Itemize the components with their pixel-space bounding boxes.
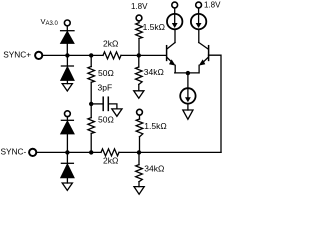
node D junction (cap tap) bbox=[89, 102, 93, 106]
ground G3 bbox=[62, 183, 72, 190]
svg-text:SYNC-: SYNC- bbox=[1, 147, 27, 157]
diode D4 (gnd to SYNC-) bbox=[61, 155, 74, 184]
svg-text:2kΩ: 2kΩ bbox=[103, 155, 118, 165]
transistor Q2 bbox=[199, 43, 209, 73]
svg-text:VA3.0: VA3.0 bbox=[41, 17, 59, 27]
wire I3 to ground bbox=[187, 104, 189, 110]
terminal 1.8V right current source bbox=[196, 2, 202, 8]
resistor R2 50 (upper) bbox=[88, 57, 95, 104]
node G junction bbox=[137, 150, 141, 154]
ground G6 bbox=[183, 110, 193, 119]
ground G1 bbox=[62, 84, 72, 91]
wire I1 to Q1 collector bbox=[174, 29, 176, 42]
wire SYNC+ rail bbox=[43, 54, 103, 56]
current source I1 bbox=[167, 14, 182, 29]
svg-text:34kΩ: 34kΩ bbox=[144, 67, 164, 77]
node F junction bbox=[65, 150, 69, 154]
wire SYNC- rail bbox=[37, 151, 101, 153]
svg-text:1.8V: 1.8V bbox=[131, 2, 148, 11]
svg-text:50Ω: 50Ω bbox=[98, 114, 114, 124]
resistor R1 2k (top) bbox=[103, 52, 121, 59]
wire emitter to I3 bbox=[187, 73, 189, 88]
current source I2 bbox=[191, 14, 206, 29]
capacitor C1 3pF bbox=[91, 97, 117, 110]
diode D1 (SYNC+ to VA3.0) bbox=[61, 31, 74, 53]
resistor R4 2k (bottom) bbox=[101, 149, 119, 156]
terminal 1.8V left current source bbox=[172, 2, 178, 8]
node E junction bbox=[89, 150, 93, 154]
wire emitter rail bbox=[175, 72, 199, 74]
svg-text:3pF: 3pF bbox=[98, 83, 113, 93]
node B junction bbox=[89, 53, 93, 57]
diode D3 (SYNC- to supply) bbox=[61, 117, 74, 150]
svg-text:1.5kΩ: 1.5kΩ bbox=[143, 22, 165, 32]
svg-text:2kΩ: 2kΩ bbox=[103, 38, 118, 48]
terminal VA3.0 bbox=[64, 20, 70, 26]
resistor R7 1.5k (bottom) bbox=[136, 116, 143, 153]
resistor R6 34k (top) bbox=[136, 58, 143, 91]
svg-text:1.5kΩ: 1.5kΩ bbox=[144, 121, 166, 131]
terminal SYNC- bbox=[29, 149, 36, 156]
node emitter junction bbox=[186, 71, 190, 75]
svg-text:1.8V: 1.8V bbox=[204, 1, 221, 10]
resistor R5 1.5k (top) bbox=[136, 21, 143, 53]
diode D2 (gnd to SYNC+) bbox=[61, 57, 74, 84]
terminal SYNC+ bbox=[35, 52, 42, 59]
svg-text:SYNC+: SYNC+ bbox=[3, 49, 31, 59]
terminal upper (SYNC- clamp) bbox=[65, 111, 71, 117]
ground G5 bbox=[134, 187, 144, 195]
ground G2 (cap) bbox=[112, 109, 122, 116]
wire I2 to Q2 collector bbox=[198, 29, 200, 42]
node A junction bbox=[65, 53, 69, 57]
resistor R8 34k (bottom) bbox=[136, 155, 143, 187]
terminal 1.8V (bottom column) bbox=[137, 109, 143, 115]
transistor Q1 bbox=[167, 43, 176, 73]
wire Q2 base to right edge bbox=[209, 55, 222, 152]
wire VA3.0 to diode bbox=[66, 26, 68, 31]
svg-text:50Ω: 50Ω bbox=[98, 68, 114, 78]
current source I3 (tail) bbox=[180, 88, 195, 103]
wire terminal to I2 bbox=[198, 8, 200, 14]
svg-text:34kΩ: 34kΩ bbox=[144, 164, 164, 174]
resistor R3 50 (lower) bbox=[88, 106, 95, 152]
terminal 1.8V (left column) bbox=[136, 15, 142, 21]
node C junction bbox=[137, 53, 141, 57]
wire terminal to I1 bbox=[174, 8, 176, 14]
ground G4 bbox=[134, 91, 144, 98]
